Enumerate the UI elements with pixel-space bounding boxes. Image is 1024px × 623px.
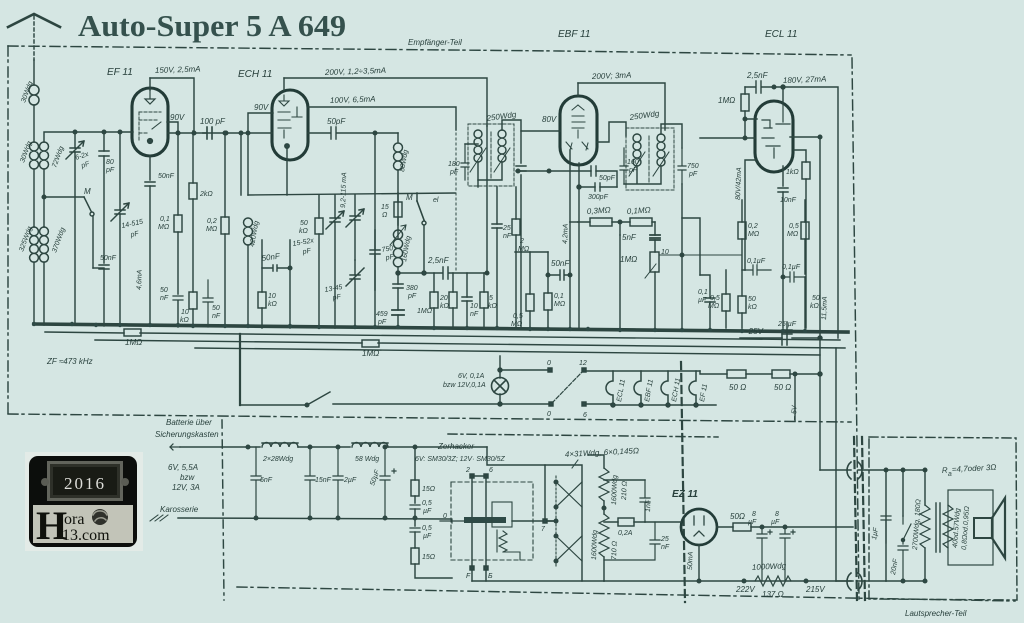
svg-text:10: 10 — [661, 249, 669, 256]
wire output rail — [751, 526, 853, 528]
variable capacitor 15-52x pF — [326, 211, 344, 229]
wire g2 — [682, 218, 700, 275]
wire — [397, 170, 399, 238]
transformer contact cross upper — [556, 482, 582, 507]
tube EBF11 envelope — [560, 96, 597, 165]
tube ECL11 envelope — [755, 101, 793, 172]
svg-text:250Wdg: 250Wdg — [485, 110, 517, 123]
svg-text:0,5: 0,5 — [789, 223, 799, 230]
transformer rail left dotted — [555, 476, 557, 568]
logo plate 2016 Hora13.com — [25, 452, 143, 551]
wire — [746, 373, 772, 375]
bus ground main — [34, 324, 848, 332]
svg-text:F: F — [466, 573, 471, 580]
svg-text:kΩ: kΩ — [748, 304, 758, 311]
wire osc section vertical — [247, 245, 249, 327]
resistor 0,3MOhm — [590, 218, 612, 226]
svg-text:160Wdg: 160Wdg — [401, 235, 412, 262]
transformer core bars — [936, 503, 940, 552]
tube EZ11 internals — [694, 516, 704, 536]
capacitor 50pF EBF — [591, 166, 596, 176]
junction — [73, 130, 77, 134]
wire osc top rail — [248, 193, 455, 195]
wire vibrator out 7 — [512, 520, 556, 522]
junction — [396, 271, 400, 275]
tube ECL11 bottom lead — [782, 166, 784, 186]
resistor 2kOhm screen — [189, 183, 197, 199]
svg-text:1MΩ: 1MΩ — [620, 255, 637, 264]
resistor 0,2MOhm left — [221, 217, 229, 234]
junction — [336, 445, 340, 449]
IF2 tuning arrows — [629, 152, 669, 176]
wire lamp feed — [499, 356, 501, 378]
wire selector top — [500, 369, 549, 371]
wire fuse — [604, 521, 645, 523]
junction heater2 — [639, 403, 643, 407]
wire — [483, 273, 485, 328]
svg-text:MΩ: MΩ — [206, 226, 218, 233]
svg-text:80: 80 — [106, 159, 114, 166]
ECL11 internal electrodes — [762, 101, 790, 158]
svg-text:kΩ: kΩ — [268, 301, 278, 308]
svg-text:0,8Ωod.0,95Ω: 0,8Ωod.0,95Ω — [961, 505, 971, 550]
svg-text:2×28Wdg: 2×28Wdg — [262, 456, 293, 463]
switch voltage selector diagonal — [552, 371, 583, 403]
wire IF1 secondary to EBF grid — [502, 120, 560, 131]
wire switch to selector — [333, 403, 549, 405]
junction heater4 — [694, 403, 698, 407]
capacitor 20nF tone — [898, 546, 908, 581]
svg-text:MΩ: MΩ — [708, 303, 720, 310]
capacitor 50uF electrolytic — [380, 447, 396, 518]
speaker magnet block — [974, 518, 992, 538]
svg-text:ECL 11: ECL 11 — [765, 29, 797, 40]
wire AF line — [570, 221, 578, 223]
svg-text:nF: nF — [212, 313, 221, 320]
svg-text:210 Ω: 210 Ω — [621, 480, 629, 501]
junction — [743, 136, 747, 140]
svg-text:µF: µF — [771, 519, 780, 526]
node tone switch — [902, 539, 905, 542]
svg-text:kΩ: kΩ — [810, 303, 820, 310]
battery plus terminal arrow — [170, 444, 180, 450]
wire vibrator terminals — [472, 476, 486, 518]
svg-text:180V, 27mA: 180V, 27mA — [783, 74, 827, 85]
svg-text:0,1: 0,1 — [554, 293, 564, 300]
svg-text:5nF: 5nF — [622, 233, 637, 242]
Zerhacker dashed box — [451, 482, 533, 560]
terminal 6 vibrator — [484, 474, 488, 478]
svg-text:pF: pF — [80, 160, 92, 170]
svg-text:200V; 3mA: 200V; 3mA — [591, 71, 632, 81]
border: bottom dash-dot rail — [237, 587, 1015, 601]
wire heater to resistors — [700, 371, 727, 374]
svg-text:180: 180 — [448, 161, 460, 168]
svg-text:50mA: 50mA — [687, 551, 695, 570]
svg-text:8: 8 — [752, 511, 756, 518]
svg-text:12V, 3A: 12V, 3A — [172, 483, 200, 492]
resistor 50kOhm — [315, 218, 323, 234]
svg-text:50: 50 — [812, 295, 820, 302]
junction — [818, 336, 822, 340]
svg-text:160: 160 — [627, 159, 639, 166]
wire EF11 anode out — [167, 122, 178, 133]
junction — [783, 525, 787, 529]
svg-text:8: 8 — [775, 511, 779, 518]
svg-text:50 Ω: 50 Ω — [774, 383, 791, 392]
resistor 2MOhm — [512, 219, 520, 235]
capacitor 25uF cathode — [782, 322, 792, 334]
lamp 6V 0,1A — [492, 378, 509, 395]
node switch — [305, 403, 309, 407]
resistor 15 Ohm lower — [411, 548, 419, 564]
svg-text:150V, 2,5mA: 150V, 2,5mA — [155, 64, 201, 75]
choke 2x28Wdg — [262, 443, 298, 448]
svg-text:ECH 11: ECH 11 — [238, 69, 272, 80]
svg-text:2: 2 — [519, 238, 524, 245]
wire — [33, 169, 35, 227]
svg-text:0,5: 0,5 — [513, 313, 523, 320]
wire IF2 bottoms — [624, 166, 661, 184]
wire — [745, 87, 757, 137]
resistor 20kOhm — [449, 292, 457, 308]
svg-text:90V: 90V — [170, 113, 185, 122]
resistor 0,5MOhm det — [526, 294, 534, 311]
coil L2 30Wdg primary — [30, 142, 39, 169]
svg-text:100 pF: 100 pF — [200, 117, 226, 126]
junction — [781, 275, 785, 279]
svg-text:30Wdg: 30Wdg — [20, 80, 34, 103]
wire — [334, 195, 336, 328]
svg-text:0,1µF: 0,1µF — [782, 264, 801, 271]
bus line 2 — [45, 332, 840, 340]
svg-text:4,2mA: 4,2mA — [562, 223, 570, 244]
wire bus to lower left — [239, 334, 241, 405]
svg-text:0,2: 0,2 — [207, 218, 217, 225]
svg-text:2,5nF: 2,5nF — [427, 256, 450, 265]
junction — [546, 273, 550, 277]
wire — [33, 105, 35, 142]
wire ECL grid — [700, 137, 755, 139]
svg-text:459: 459 — [376, 311, 388, 318]
wire — [782, 192, 784, 328]
junction heater3 — [666, 403, 670, 407]
wire vibrator to rail — [472, 570, 486, 581]
wire heater top — [586, 371, 716, 405]
svg-text:pF: pF — [331, 294, 342, 303]
svg-text:50pF: 50pF — [599, 175, 616, 182]
capacitor 160pF IF2 — [620, 148, 628, 184]
heater ECL11 — [606, 371, 613, 405]
svg-text:750: 750 — [687, 163, 699, 170]
svg-text:1MΩ: 1MΩ — [718, 96, 735, 105]
tube ECH11 top lead — [283, 78, 285, 90]
junction — [781, 85, 785, 89]
resistor 10kOhm screen — [189, 292, 197, 309]
junction — [742, 579, 746, 583]
wire bus right drop — [835, 348, 837, 581]
capacitor 25V filter — [782, 332, 787, 345]
wire — [374, 230, 376, 290]
svg-text:1µF: 1µF — [871, 526, 880, 540]
junction — [224, 131, 228, 135]
switch M terminal — [90, 212, 94, 216]
junction — [618, 220, 622, 224]
svg-text:100V, 6,5mA: 100V, 6,5mA — [330, 94, 376, 105]
junction — [413, 516, 417, 520]
svg-text:pF: pF — [449, 169, 459, 176]
capacitor 2,5nF — [398, 267, 487, 279]
wire link — [93, 267, 104, 269]
svg-text:pF: pF — [301, 248, 312, 257]
resistor 1000Wdg 137 Ohm zigzag — [755, 576, 791, 586]
svg-text:ZF ≈473 kHz: ZF ≈473 kHz — [46, 357, 93, 366]
heater ECH11 — [661, 371, 668, 405]
svg-text:pF: pF — [377, 319, 387, 326]
wire — [388, 446, 487, 448]
junction — [192, 131, 196, 135]
svg-text:25: 25 — [502, 225, 511, 232]
svg-text:10: 10 — [268, 293, 276, 300]
svg-text:200V, 1,2÷3,5mA: 200V, 1,2÷3,5mA — [324, 66, 386, 77]
svg-text:EF 11: EF 11 — [699, 383, 709, 402]
svg-text:pF: pF — [105, 167, 115, 174]
svg-text:el: el — [433, 197, 439, 204]
wire speaker feed vertical — [886, 470, 925, 581]
capacitor 1nF buffer — [640, 480, 650, 522]
svg-text:13-45: 13-45 — [324, 284, 343, 294]
wire -5V drop — [794, 374, 796, 421]
wire — [417, 193, 424, 273]
svg-text:pF: pF — [407, 293, 417, 300]
junction — [176, 131, 180, 135]
junction — [254, 516, 258, 520]
junction — [336, 516, 340, 520]
svg-text:80V/42mA: 80V/42mA — [735, 167, 743, 200]
capacitor 0,5uF upper — [410, 505, 420, 509]
wire 80V 42mA line — [745, 160, 756, 270]
border: Batterie dashed feed line — [448, 434, 718, 437]
resistor 15 Ohm upper — [411, 480, 419, 496]
wire — [74, 132, 76, 325]
wire to speaker bottom — [836, 580, 886, 582]
wire — [103, 132, 105, 263]
terminal F — [470, 566, 474, 570]
EF11 cathode dot — [148, 139, 153, 144]
resistor 0,5MOhm g — [722, 294, 730, 311]
svg-text:50nF: 50nF — [551, 259, 570, 268]
coil L4 325Wdg — [30, 227, 39, 262]
capacitor 5nF battery — [251, 447, 261, 518]
wire — [375, 132, 398, 134]
wire — [578, 221, 620, 223]
wire — [192, 199, 194, 327]
wire — [192, 131, 194, 183]
wire buffer top — [604, 479, 645, 481]
wire 150V rail — [150, 78, 194, 133]
svg-text:90V: 90V — [254, 103, 269, 112]
junction — [42, 195, 46, 199]
coil 160Wdg — [393, 230, 402, 267]
resistor 50 Ohm heater2 — [772, 370, 790, 378]
svg-text:15: 15 — [381, 204, 389, 211]
wire — [741, 200, 743, 328]
svg-text:50: 50 — [212, 305, 220, 312]
capacitor 0,1uF ECL — [783, 272, 805, 282]
border: heavy dashed chassis divider x=680 — [681, 362, 685, 602]
svg-text:bzw 12V,0,1A: bzw 12V,0,1A — [443, 382, 486, 389]
svg-text:MΩ: MΩ — [518, 246, 530, 253]
svg-text:µF: µF — [748, 519, 757, 526]
svg-text:kΩ: kΩ — [488, 303, 498, 310]
capacitor 50nF series — [99, 265, 109, 269]
wire — [596, 171, 617, 187]
tube EF11 envelope — [132, 88, 168, 156]
svg-text:4×31Wdg, 6×0,145Ω: 4×31Wdg, 6×0,145Ω — [565, 446, 640, 459]
svg-text:50 Ω: 50 Ω — [729, 383, 746, 392]
svg-text:ora: ora — [64, 511, 84, 528]
svg-text:50: 50 — [748, 296, 756, 303]
junction — [176, 131, 180, 135]
capacitor 5nF AF — [650, 235, 660, 240]
svg-text:2µF: 2µF — [343, 477, 357, 484]
wire — [318, 195, 320, 328]
EBF11 internal electrodes — [566, 105, 588, 150]
resistor 50kOhm fb — [738, 296, 746, 313]
wire — [298, 446, 350, 448]
junction — [413, 445, 417, 449]
junction — [118, 130, 122, 134]
IF1 core — [490, 132, 492, 180]
capacitor 50nF det — [548, 270, 570, 280]
coil L5 370Wdg — [40, 227, 49, 262]
wire — [529, 252, 531, 328]
capacitor 0,1uF det2 — [705, 298, 715, 302]
svg-text:15-52x: 15-52x — [292, 237, 315, 248]
wire — [804, 200, 806, 274]
svg-text:50µF: 50µF — [369, 468, 381, 486]
svg-text:13.com: 13.com — [62, 527, 110, 544]
junction — [760, 525, 764, 529]
wire — [224, 133, 226, 327]
wire EBF diode return — [569, 150, 571, 222]
svg-text:µF: µF — [698, 297, 707, 304]
svg-text:1MΩ: 1MΩ — [417, 308, 433, 315]
svg-text:– 5V: – 5V — [791, 404, 799, 421]
switch M wire — [44, 196, 84, 198]
border: Empfaenger-Teil dashed frame bottom — [8, 414, 851, 422]
svg-text:0,2A: 0,2A — [618, 530, 633, 537]
junction — [308, 516, 312, 520]
svg-text:0: 0 — [443, 513, 447, 520]
tube ECL11 top lead — [782, 87, 784, 101]
wire right rail — [819, 137, 821, 470]
svg-text:~25V: ~25V — [744, 327, 764, 336]
junction — [498, 402, 502, 406]
junction — [422, 271, 426, 275]
wire det bus — [515, 251, 548, 253]
capacitor 0,5uF lower — [410, 528, 420, 532]
svg-text:50: 50 — [160, 287, 168, 294]
wire — [119, 132, 121, 326]
svg-text:6: 6 — [489, 467, 493, 474]
wire 200V rail — [284, 78, 487, 126]
resistor 0,1MOhm AF — [630, 218, 652, 226]
bus line 4 — [195, 348, 820, 355]
svg-text:1MΩ: 1MΩ — [362, 349, 379, 358]
svg-text:Empfänger-Teil: Empfänger-Teil — [408, 38, 462, 47]
wire EF11 anode to coupling — [168, 132, 272, 134]
capacitor 50nF agc — [173, 296, 183, 300]
wire — [547, 252, 549, 328]
svg-text:6V, 5,5A: 6V, 5,5A — [168, 463, 198, 472]
capacitor 25nF — [492, 224, 502, 228]
wire — [414, 532, 416, 548]
tube EZ11 envelope — [681, 509, 717, 545]
capacitor 300pF EBF — [595, 183, 600, 191]
IF1 tuning arrows — [470, 148, 510, 172]
capacitor 2,5nF coupling — [745, 81, 761, 93]
switch battery — [240, 392, 330, 405]
wire primary — [588, 455, 604, 581]
wire ECL screen — [790, 136, 820, 138]
svg-text:0,2: 0,2 — [748, 223, 758, 230]
svg-text:1600Wdg: 1600Wdg — [591, 530, 599, 560]
capacitor 50pF osc grid — [308, 127, 375, 139]
terminal 0 vibrator — [440, 519, 464, 523]
wire — [620, 221, 655, 223]
junction — [577, 185, 581, 189]
resistor 1kOhm ECL — [802, 162, 810, 179]
connector plug upper — [847, 462, 862, 479]
resistor 5kOhm — [480, 292, 488, 308]
wire EZ11 cathode down — [698, 545, 700, 581]
resistor 10kOhm — [258, 292, 266, 308]
bus line 3 — [95, 340, 845, 348]
resistor 50 Ohm heater — [727, 370, 746, 378]
svg-text:9,2-115 mA: 9,2-115 mA — [340, 172, 348, 208]
vibrator contact frame — [492, 502, 512, 527]
capacitor 25V cathode wire — [740, 337, 820, 339]
svg-text:2: 2 — [465, 467, 470, 474]
wire IF1 primary bottom — [465, 144, 502, 180]
wire EZ11 anode — [645, 521, 681, 523]
border: heavy dashed chassis divider x=853 — [854, 437, 857, 601]
wire — [262, 240, 290, 328]
wire — [600, 186, 617, 188]
wire — [496, 187, 498, 328]
svg-text:kΩ: kΩ — [180, 317, 190, 324]
svg-text:7: 7 — [541, 526, 546, 533]
junction — [772, 85, 776, 89]
wire EF11 cathode — [149, 156, 151, 180]
svg-text:MΩ: MΩ — [554, 301, 566, 308]
terminal 0 bottom — [549, 402, 553, 406]
output transformer primary zigzag — [920, 505, 930, 548]
svg-text:250Wdg: 250Wdg — [628, 109, 660, 122]
svg-text:0,1: 0,1 — [160, 216, 170, 223]
wire — [515, 187, 517, 328]
svg-text:pF: pF — [129, 230, 140, 239]
wire — [149, 186, 151, 326]
IF1 secondary coil — [498, 130, 506, 162]
junction — [901, 468, 905, 472]
trimmer 13-45pF — [346, 268, 364, 286]
antenna lead-in dashed wire — [33, 16, 35, 60]
svg-text:EBF 11: EBF 11 — [644, 379, 655, 403]
wire speaker box top — [886, 469, 925, 471]
EF11 internal grids — [139, 112, 161, 140]
